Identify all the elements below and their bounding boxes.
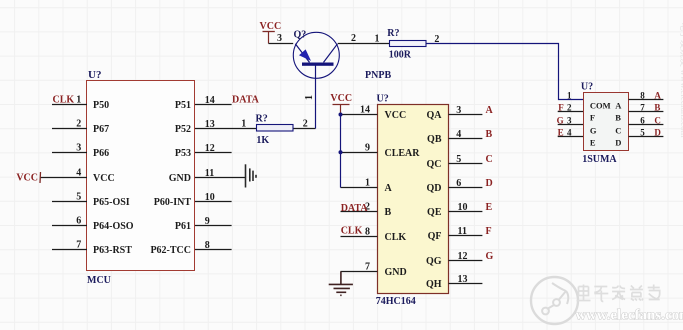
7-segment display U3 body xyxy=(584,93,629,151)
MCU right pin wires (pins 14-8) xyxy=(195,105,246,250)
74HC164 left pin numbers 14 9 1 2 8 7 xyxy=(360,105,370,273)
svg-text:D: D xyxy=(615,137,621,147)
MCU right pin numbers 14-8 xyxy=(205,95,215,251)
svg-text:G: G xyxy=(557,116,564,126)
svg-text:14: 14 xyxy=(205,95,215,106)
svg-text:QF: QF xyxy=(428,231,442,242)
svg-text:www.elecfans.com: www.elecfans.com xyxy=(576,308,683,324)
svg-text:1: 1 xyxy=(365,178,370,189)
svg-text:R?: R? xyxy=(256,114,268,125)
svg-text:QG: QG xyxy=(426,256,442,267)
svg-text:B: B xyxy=(615,112,621,122)
wire VCC to Q1 emitter xyxy=(269,43,294,45)
svg-text:E: E xyxy=(590,137,596,147)
svg-text:B: B xyxy=(486,129,493,140)
svg-text:E: E xyxy=(558,128,564,138)
svg-text:A: A xyxy=(385,183,393,194)
svg-text:QE: QE xyxy=(427,207,442,218)
74HC164 right pin names QA-QH xyxy=(426,110,442,290)
wire VCC rail down to pins 14,9,1 xyxy=(340,115,342,188)
svg-text:P62-TCC: P62-TCC xyxy=(150,245,191,256)
svg-text:13: 13 xyxy=(205,119,215,130)
net labels A B C D on display right pins xyxy=(654,91,661,138)
svg-text:11: 11 xyxy=(205,168,214,179)
svg-text:3: 3 xyxy=(567,116,572,126)
svg-text:CLK: CLK xyxy=(341,225,363,236)
svg-text:电子发烧友 www.elecfans.com: 电子发烧友 www.elecfans.com xyxy=(679,22,683,138)
svg-text:9: 9 xyxy=(205,216,210,227)
svg-text:4: 4 xyxy=(76,168,81,179)
svg-text:U?: U? xyxy=(88,69,101,81)
transistor Q1 base bar xyxy=(302,63,334,66)
resistor R1 1K leads xyxy=(237,128,316,130)
svg-text:DATA: DATA xyxy=(232,95,260,106)
svg-text:2: 2 xyxy=(303,118,308,129)
wire R2 to display pin 1 (with corner) xyxy=(426,44,584,100)
svg-text:F: F xyxy=(486,226,492,237)
svg-text:2: 2 xyxy=(76,119,81,130)
svg-text:GND: GND xyxy=(169,173,191,184)
svg-text:9: 9 xyxy=(365,143,370,154)
resistor R2 100R body xyxy=(390,41,427,47)
svg-text:1: 1 xyxy=(375,33,380,44)
svg-text:1: 1 xyxy=(567,91,572,101)
svg-text:B: B xyxy=(654,103,660,113)
svg-text:5: 5 xyxy=(640,128,645,138)
svg-text:GND: GND xyxy=(385,267,407,278)
svg-text:G: G xyxy=(590,125,597,135)
svg-text:PNPB: PNPB xyxy=(365,70,391,81)
junction dot at pin 9 xyxy=(339,150,343,154)
net labels A-G on 74HC164 outputs xyxy=(486,105,494,262)
svg-text:D: D xyxy=(486,178,493,189)
svg-text:10: 10 xyxy=(205,192,215,203)
svg-text:1SUMA: 1SUMA xyxy=(582,154,617,165)
svg-text:8: 8 xyxy=(640,91,645,101)
svg-text:1: 1 xyxy=(241,119,246,130)
svg-text:4: 4 xyxy=(456,129,461,140)
svg-text:8: 8 xyxy=(205,240,210,251)
display left pin numbers 1 2 3 4 xyxy=(567,91,572,138)
svg-text:CLEAR: CLEAR xyxy=(385,148,421,159)
svg-text:P65-OSI: P65-OSI xyxy=(93,197,130,208)
74HC164 right pin wires (3,4,5,6,10,11,12,13) xyxy=(449,115,483,284)
svg-text:R?: R? xyxy=(387,28,399,39)
transistor Q1 emitter diagonal with PNP arrow xyxy=(295,44,309,63)
svg-text:P50: P50 xyxy=(93,100,109,111)
wire from R1 to Q1 base xyxy=(315,66,317,129)
svg-text:F: F xyxy=(558,103,564,113)
svg-text:VCC: VCC xyxy=(93,173,115,184)
svg-text:P64-OSO: P64-OSO xyxy=(93,221,134,232)
MCU U? component body xyxy=(87,81,195,271)
svg-text:7: 7 xyxy=(640,103,645,113)
svg-text:MCU: MCU xyxy=(87,275,111,286)
svg-text:VCC: VCC xyxy=(330,93,352,104)
svg-text:P53: P53 xyxy=(175,148,191,159)
svg-text:COM: COM xyxy=(590,100,611,110)
net labels F G E on display pins 2 3 4 xyxy=(557,103,565,138)
svg-text:P61: P61 xyxy=(175,221,191,232)
svg-text:VCC: VCC xyxy=(260,21,282,32)
svg-text:6: 6 xyxy=(456,178,461,189)
MCU left pin numbers 1-7 xyxy=(76,95,81,251)
svg-text:D: D xyxy=(654,128,661,138)
svg-text:5: 5 xyxy=(456,154,461,165)
svg-text:B: B xyxy=(385,207,392,218)
svg-text:CLK: CLK xyxy=(385,232,407,243)
svg-text:P60-INT: P60-INT xyxy=(154,197,192,208)
svg-text:P66: P66 xyxy=(93,148,109,159)
svg-text:QA: QA xyxy=(427,110,443,121)
svg-text:3: 3 xyxy=(456,105,461,116)
junction dot at pin 14 xyxy=(339,113,343,117)
svg-text:6: 6 xyxy=(640,116,645,126)
svg-text:VCC: VCC xyxy=(385,110,407,121)
svg-text:2: 2 xyxy=(351,33,356,44)
74HC164 left pin names VCC CLEAR A B CLK GND xyxy=(385,110,421,278)
display left pin wires (2,3,4) xyxy=(558,112,583,137)
svg-text:7: 7 xyxy=(365,262,370,273)
svg-text:11: 11 xyxy=(458,226,467,237)
74HC164 right pin numbers 3 4 5 6 10 11 12 13 xyxy=(456,105,467,285)
watermark chinese characters (approx strokes) xyxy=(577,285,660,302)
wire Q1 collector to R2 xyxy=(338,43,390,45)
svg-text:VCC: VCC xyxy=(16,173,38,184)
display internal labels A B C D xyxy=(615,100,622,147)
watermark logo circle (decorative) xyxy=(531,277,578,324)
svg-text:C: C xyxy=(654,116,661,126)
svg-text:P52: P52 xyxy=(175,124,191,135)
transistor Q1 body circle xyxy=(293,32,339,78)
svg-text:12: 12 xyxy=(205,143,215,154)
resistor R1 1K body xyxy=(257,125,294,132)
svg-text:5: 5 xyxy=(76,192,81,203)
svg-text:8: 8 xyxy=(365,227,370,238)
svg-text:QB: QB xyxy=(427,134,442,145)
svg-text:Q?: Q? xyxy=(294,30,307,41)
svg-text:10: 10 xyxy=(458,202,468,213)
74HC164 U2 component body xyxy=(378,105,449,294)
svg-text:7: 7 xyxy=(76,240,81,251)
svg-text:DATA: DATA xyxy=(341,203,369,214)
svg-text:U?: U? xyxy=(377,94,389,105)
svg-text:1: 1 xyxy=(304,95,315,100)
svg-text:A: A xyxy=(486,105,494,116)
svg-text:1: 1 xyxy=(76,95,81,106)
svg-text:A: A xyxy=(615,100,622,110)
svg-text:P51: P51 xyxy=(175,100,191,111)
transistor Q1 collector diagonal xyxy=(324,44,338,63)
display right pin numbers 8 7 6 5 xyxy=(640,91,645,138)
svg-text:C: C xyxy=(486,154,493,165)
svg-text:QH: QH xyxy=(426,279,442,290)
svg-text:E: E xyxy=(486,202,493,213)
svg-text:3: 3 xyxy=(76,143,81,154)
svg-text:CLK: CLK xyxy=(53,95,75,106)
svg-text:QC: QC xyxy=(427,159,442,170)
svg-text:U?: U? xyxy=(581,82,593,93)
74HC164 left pin wires (14,9,1,2,8,7) xyxy=(341,115,378,272)
svg-text:1K: 1K xyxy=(256,135,269,146)
svg-text:4: 4 xyxy=(567,128,572,138)
svg-text:2: 2 xyxy=(567,103,572,113)
display internal labels COM F G E xyxy=(590,100,611,147)
svg-text:100R: 100R xyxy=(389,50,412,61)
ground symbol at 74HC164 pin 7 xyxy=(329,272,353,296)
display right pin wires (8,7,6,5) xyxy=(629,100,664,137)
svg-text:13: 13 xyxy=(458,274,468,285)
MCU left pin names P50 P67 P66 VCC P65-OSI P64-OSO P63-RST xyxy=(93,100,134,256)
MCU left pin wires (pins 1-7) xyxy=(40,105,87,250)
svg-text:P63-RST: P63-RST xyxy=(93,245,132,256)
svg-text:74HC164: 74HC164 xyxy=(376,296,416,307)
svg-text:QD: QD xyxy=(427,183,442,194)
svg-text:14: 14 xyxy=(360,105,370,116)
svg-text:12: 12 xyxy=(458,251,468,262)
svg-text:A: A xyxy=(654,91,661,101)
svg-text:6: 6 xyxy=(76,216,81,227)
svg-text:3: 3 xyxy=(277,33,282,44)
svg-text:P67: P67 xyxy=(93,124,109,135)
svg-text:G: G xyxy=(486,251,494,262)
MCU right pin names P51 P52 P53 GND P60-INT P61 P62-TCC xyxy=(150,100,191,256)
ground symbol at MCU pin 11 (rotated) xyxy=(246,164,257,187)
svg-text:F: F xyxy=(590,112,595,122)
svg-text:C: C xyxy=(615,125,621,135)
